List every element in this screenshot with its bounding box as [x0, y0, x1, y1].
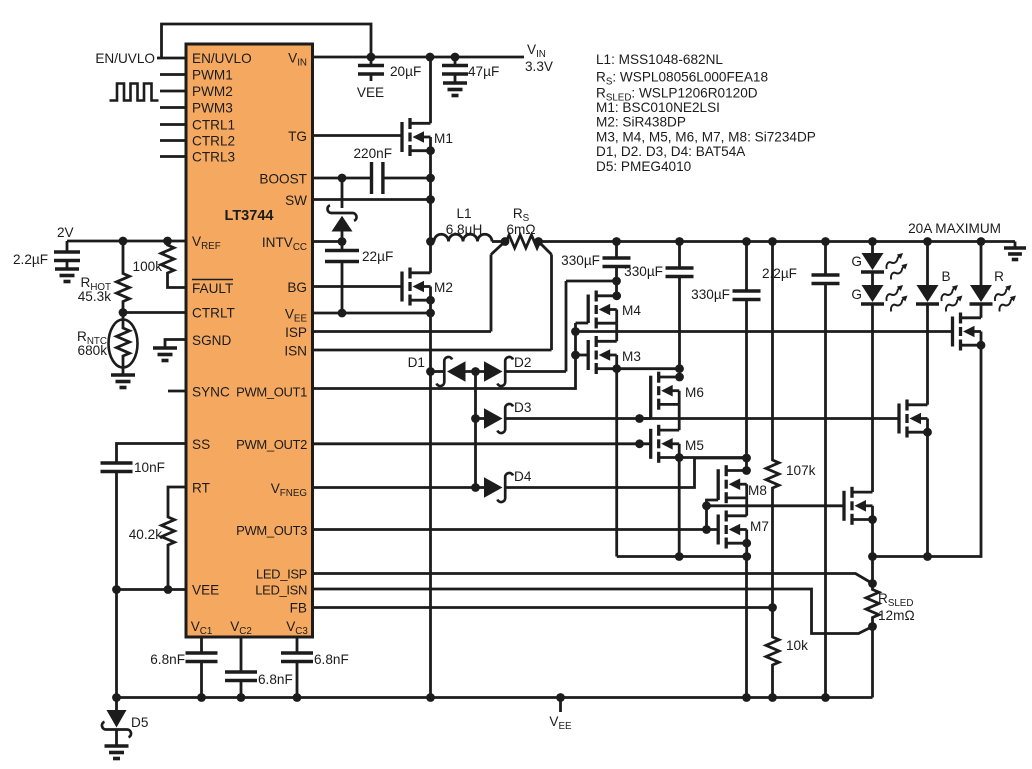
svg-text:D5: PMEG4010: D5: PMEG4010 — [596, 159, 692, 174]
wire L1 to RS — [492, 240, 505, 243]
transistor M5 N-MOSFET — [649, 429, 652, 459]
junction PWM_OUT3 / gate riser — [702, 525, 711, 534]
PWM clock waveform symbol — [110, 84, 159, 101]
svg-text:PWM_OUT3: PWM_OUT3 — [236, 523, 307, 538]
LED G1 green — [871, 242, 874, 254]
svg-text:SS: SS — [192, 437, 210, 452]
wire 10nF column down to VEE rail — [115, 590, 118, 698]
capacitor 330uF no1 — [615, 242, 618, 259]
junction SW / M1-M2 column — [426, 195, 435, 204]
junction VREF / 100k — [163, 237, 172, 246]
wire ISN sense from U1 up to RS right — [313, 349, 552, 352]
wire M4 source to M3 drain — [615, 323, 618, 341]
junction RSLED bottom — [868, 622, 877, 631]
capacitor 6.8nF at VC2 — [240, 637, 243, 672]
junction rail / VEE stub — [556, 693, 565, 702]
inductor L1 6.8uH — [431, 240, 435, 243]
wire 330uF no3 to M8 drain — [745, 458, 748, 471]
capacitor 10nF soft-start — [101, 461, 133, 465]
junction M5 source — [675, 453, 684, 462]
junction M8 drain — [742, 466, 751, 475]
wire D1-D2 anode link — [466, 370, 485, 373]
junction CTRLT / RHOT / RNTC — [119, 308, 128, 317]
svg-text:100k: 100k — [133, 259, 163, 274]
LED B blue — [926, 242, 929, 286]
resistor 107k divider top — [771, 242, 774, 460]
svg-text:45.3k: 45.3k — [78, 289, 111, 304]
diode D2 schottky — [484, 361, 503, 382]
svg-text:D1, D2. D3, D4: BAT54A: D1, D2. D3, D4: BAT54A — [596, 144, 746, 159]
capacitor 47uF VIN to GND — [454, 57, 457, 66]
wire PWM_OUT2 from U1 to M5 gate — [313, 442, 651, 445]
svg-text:CTRL1: CTRL1 — [192, 118, 235, 133]
wire VEE row left — [117, 588, 187, 591]
junction VIN / top link — [367, 53, 376, 62]
svg-text:40.2k: 40.2k — [129, 527, 162, 542]
svg-text:M1: BSC010NE2LSI: M1: BSC010NE2LSI — [596, 100, 720, 115]
svg-text:330µF: 330µF — [691, 287, 730, 302]
junction VIN / M1 drain — [426, 53, 435, 62]
svg-text:G: G — [851, 254, 862, 269]
junction gate riser / G switch gate row — [702, 501, 711, 510]
junction anode column / D4 / VFNEG — [471, 483, 480, 492]
wire VREF row — [67, 240, 186, 243]
svg-text:D3: D3 — [514, 400, 531, 415]
svg-text:M7: M7 — [750, 519, 769, 534]
resistor RS 6 milliohm sense — [505, 235, 540, 248]
wire LED_ISP from U1 to RSLED top — [313, 574, 873, 584]
junction rail / 2.2uF column — [821, 693, 830, 702]
svg-text:680k: 680k — [78, 343, 108, 358]
junction 220nF / M1 source column — [426, 174, 435, 183]
junction rail / 2.2uF — [821, 237, 830, 246]
wire RSLED bottom to VEE rail — [871, 627, 874, 698]
svg-text:12mΩ: 12mΩ — [878, 608, 915, 623]
wire SGND to ground — [165, 340, 186, 349]
svg-text:10nF: 10nF — [134, 460, 165, 475]
wire PWM_OUT3 from U1 to M7 gate — [313, 528, 719, 531]
junction M7 source — [742, 539, 751, 548]
junction rail / VC3 cap — [293, 693, 302, 702]
junction rail / 330uF no3 — [742, 237, 751, 246]
svg-text:ISN: ISN — [284, 344, 307, 359]
svg-text:M4: M4 — [622, 303, 641, 318]
svg-text:20A MAXIMUM: 20A MAXIMUM — [908, 221, 1001, 236]
svg-text:SYNC: SYNC — [192, 385, 230, 400]
junction M1 source — [426, 146, 435, 155]
junction M6 drain — [675, 373, 684, 382]
capacitor 2.2uF output — [824, 242, 827, 276]
svg-text:BG: BG — [287, 280, 307, 295]
junction rail / M2 column — [426, 693, 435, 702]
svg-text:6.8µH: 6.8µH — [446, 222, 483, 237]
junction gate chain / R switch gate row — [571, 327, 580, 336]
junction red switch source — [977, 341, 986, 350]
junction VREF / RHOT — [119, 237, 128, 246]
svg-text:6.8nF: 6.8nF — [150, 652, 185, 667]
light arrows G2 — [886, 288, 899, 302]
svg-text:ISP: ISP — [285, 325, 307, 340]
svg-text:220nF: 220nF — [353, 146, 392, 161]
capacitor 330uF no3 — [745, 242, 748, 292]
resistor 100k VREF to FAULT — [161, 241, 174, 280]
junction rail / VC1 cap — [197, 693, 206, 702]
svg-text:G: G — [851, 287, 862, 302]
capacitor 6.8nF at VC1 — [200, 637, 203, 653]
wire M3 source row to 330uF no2 bottom — [617, 367, 680, 370]
wire blue switch source down to common row — [926, 432, 929, 556]
wire BOOST from U1 — [313, 177, 372, 180]
svg-text:EN/UVLO: EN/UVLO — [95, 51, 155, 66]
junction SW column / L1 takeoff — [426, 237, 435, 246]
op-amp U1 LT3744 controller body — [186, 44, 313, 637]
LED G2 green — [862, 285, 884, 302]
junction M2 source — [426, 296, 435, 305]
diode bootstrap schottky BOOST to INTVCC — [341, 178, 344, 208]
svg-text:PWM1: PWM1 — [192, 68, 233, 83]
junction M4 drain — [612, 291, 621, 300]
wire M5 source column down to common row — [678, 458, 681, 557]
light arrows R — [995, 288, 1008, 302]
wire CTRL1 stub — [160, 123, 186, 126]
wire CTRL3 stub — [160, 155, 186, 158]
wire D4 cathode row with jog up to M5 source node — [505, 458, 746, 488]
svg-text:PWM_OUT2: PWM_OUT2 — [236, 437, 307, 452]
transistor M6 N-MOSFET — [649, 376, 652, 419]
light arrows B — [941, 288, 954, 302]
svg-text:RT: RT — [192, 481, 210, 496]
svg-text:EN/UVLO: EN/UVLO — [192, 51, 252, 66]
svg-text:D1: D1 — [408, 355, 425, 370]
junction rail / green LED string — [868, 237, 877, 246]
svg-text:D2: D2 — [514, 355, 531, 370]
wire M1 drain to VIN rail — [429, 57, 432, 123]
svg-text:3.3V: 3.3V — [525, 59, 553, 74]
wire VEE row from U1 to M2 source — [313, 312, 431, 315]
svg-text:LED_ISN: LED_ISN — [255, 583, 307, 598]
wire SYNC stub — [168, 390, 186, 393]
svg-text:47µF: 47µF — [468, 64, 499, 79]
capacitor 20uF VIN to VEE — [370, 57, 373, 66]
junction M3 source row / 330uF no2 bottom — [675, 364, 684, 373]
wire BG from U1 to M2 gate — [313, 285, 403, 288]
diode D5 schottky clamp to ground — [115, 698, 118, 711]
transistor M7 N-MOSFET — [717, 515, 720, 545]
junction VIN / 47uF — [451, 53, 460, 62]
wire SS from U1 to 10nF — [117, 444, 187, 464]
svg-text:M1: M1 — [434, 131, 453, 146]
wire to M4 drain — [615, 281, 618, 296]
svg-text:B: B — [941, 269, 950, 284]
wire LED anode top rail — [539, 240, 1016, 243]
svg-text:SGND: SGND — [192, 333, 231, 348]
junction INTVCC / diode / 22uF — [338, 237, 347, 246]
svg-text:CTRL2: CTRL2 — [192, 134, 235, 149]
svg-text:6.8nF: 6.8nF — [258, 672, 293, 687]
transistor red LED switch N-MOSFET — [951, 317, 954, 347]
thermistor RNTC 680k — [122, 313, 125, 323]
junction rail / 330uF no1 — [612, 237, 621, 246]
wire M2 drain up to SW/L1 node — [429, 242, 432, 273]
junction common row / M7 — [742, 552, 751, 561]
junction rail / red LED — [977, 237, 986, 246]
junction rail / 107k — [768, 237, 777, 246]
wire gate row to red LED switch gate — [576, 330, 953, 333]
wire LED_ISN from U1 to RSLED bottom — [313, 589, 873, 634]
capacitor 220nF BOOST — [370, 162, 373, 194]
diode D1 schottky — [447, 361, 466, 382]
wire M7 source to common row — [745, 543, 748, 556]
junction rail / 330uF no3 column — [742, 693, 751, 702]
svg-text:10k: 10k — [786, 638, 808, 653]
junction VEE / 10nF column — [112, 585, 121, 594]
resistor RHOT 45.3k — [117, 241, 130, 313]
transistor M4 N-MOSFET — [587, 295, 590, 324]
svg-text:PWM_OUT1: PWM_OUT1 — [236, 385, 307, 400]
wire PWM3 stub — [160, 106, 186, 109]
transistor M1 N-MOSFET — [400, 122, 403, 152]
wire FB from U1 to divider — [313, 606, 773, 609]
junction FB / divider — [768, 603, 777, 612]
wire ISP sense from U1 up to RS left — [313, 330, 492, 333]
junction gate chain / M3 gate — [571, 351, 580, 360]
junction D3 row / M6 gate — [635, 414, 644, 423]
transistor M2 N-MOSFET — [400, 272, 403, 302]
wire SW from U1 to M1/M2 column — [313, 198, 431, 201]
transistor green string switch N-MOSFET — [842, 491, 845, 521]
svg-text:FB: FB — [290, 601, 307, 616]
junction rail / blue LED — [923, 237, 932, 246]
svg-text:LED_ISP: LED_ISP — [256, 567, 307, 582]
capacitor 2.2uF VREF — [66, 241, 69, 252]
ground at SGND — [153, 346, 177, 350]
svg-text:330µF: 330µF — [561, 253, 600, 268]
junction VEE / 22uF bottom — [338, 309, 347, 318]
svg-text:LT3744: LT3744 — [225, 208, 274, 224]
wire gate riser to M8 gate and G switch gate row — [707, 506, 845, 530]
svg-text:107k: 107k — [786, 463, 816, 478]
wire M2 source to VEE row — [429, 300, 432, 313]
wire PWM1 stub — [160, 73, 186, 76]
wire VIN rail from U1 to VIN label — [313, 56, 525, 59]
junction rail / 10k — [768, 693, 777, 702]
junction D1 D2 anodes — [471, 367, 480, 376]
ground at 47uF — [443, 81, 467, 85]
LED R red — [980, 242, 983, 286]
wire M3 source column down to common row — [615, 369, 618, 557]
svg-text:L1: MSS1048-682NL: L1: MSS1048-682NL — [596, 52, 723, 67]
wire green switch source to RSLED top — [871, 520, 874, 586]
junction M2 column / D1 — [426, 367, 435, 376]
wire D1-D2 row from M2 column — [431, 370, 445, 373]
svg-text:D5: D5 — [131, 715, 148, 730]
wire common source row left segment — [617, 555, 750, 558]
junction VEE / M2 column — [426, 309, 435, 318]
light arrows G1 — [886, 256, 899, 270]
wire 330uF no3 column down to VEE rail — [745, 557, 748, 698]
transistor blue LED switch N-MOSFET — [897, 404, 900, 434]
wire EN/UVLO over-the-top link to VIN node — [162, 24, 372, 58]
svg-text:20µF: 20µF — [390, 64, 421, 79]
ground at RNTC — [111, 373, 135, 377]
svg-text:VEE: VEE — [192, 583, 219, 598]
svg-text:VEE: VEE — [357, 85, 384, 100]
junction PWM_OUT2 / M5 gate — [635, 439, 644, 448]
wire D3 cathode row to M6 gate and blue switch gate — [505, 417, 899, 420]
svg-text:D4: D4 — [514, 469, 532, 484]
wire RT from U1 to 40.2k — [168, 487, 186, 513]
junction blue switch source — [923, 428, 932, 437]
svg-text:M6: M6 — [685, 385, 704, 400]
svg-text:M3: M3 — [622, 349, 641, 364]
junction 330uF no1 bottom / D2 / M4 drain — [612, 277, 621, 286]
wire TG from U1 to M1 gate — [313, 134, 403, 137]
junction common row / RSLED column — [868, 552, 877, 561]
diode D4 schottky — [476, 486, 485, 489]
wire CTRL2 stub — [160, 139, 186, 142]
svg-text:BOOST: BOOST — [259, 172, 307, 187]
svg-text:M2: M2 — [434, 280, 453, 295]
svg-text:R: R — [994, 269, 1004, 284]
ground top right of LED rail — [1014, 242, 1017, 249]
junction green switch source — [868, 515, 877, 524]
wire D1-D4 anode column — [474, 372, 477, 488]
junction RS left / ISP sense — [501, 237, 510, 246]
capacitor 22uF INTVCC to VEE — [341, 242, 344, 251]
svg-text:M2: SiR438DP: M2: SiR438DP — [596, 115, 686, 130]
wire INTVCC from U1 — [313, 240, 343, 243]
wire M3 gate lead — [576, 354, 589, 357]
resistor RSLED 12 milliohm — [866, 584, 879, 627]
wire M8 source to M7 drain — [745, 498, 748, 516]
junction rail / VC2 cap — [237, 693, 246, 702]
svg-text:M3, M4, M5, M6, M7, M8: Si7234: M3, M4, M5, M6, M7, M8: Si7234DP — [596, 129, 816, 144]
svg-text:2.2µF: 2.2µF — [13, 252, 48, 267]
svg-text:6mΩ: 6mΩ — [506, 222, 535, 237]
wire 220nF to M1 source column — [383, 177, 431, 180]
junction rail / D5 — [112, 693, 121, 702]
wire EN/UVLO stub to U1 — [157, 57, 186, 60]
wire PWM_OUT1 from U1 to M3/M4 gates — [313, 323, 576, 389]
wire PWM2 stub — [160, 90, 186, 93]
wire M8 gate lead from riser — [707, 500, 719, 506]
svg-text:CTRLT: CTRLT — [192, 306, 235, 321]
svg-text:2V: 2V — [57, 225, 74, 240]
wire M6 source to M5 drain — [678, 404, 681, 430]
svg-text:TG: TG — [288, 129, 307, 144]
svg-text:FAULT: FAULT — [192, 281, 233, 296]
svg-text:6.8nF: 6.8nF — [314, 652, 349, 667]
wire M1 source down to BOOST cap / SW node — [429, 151, 432, 242]
svg-text:M8: M8 — [748, 483, 767, 498]
svg-text:SW: SW — [285, 193, 307, 208]
wire CTRLT row — [123, 311, 186, 314]
junction RS right / ISN sense — [534, 237, 543, 246]
svg-text:L1: L1 — [456, 206, 471, 221]
wire M2 column down to bottom VEE rail — [429, 313, 432, 698]
svg-text:PWM3: PWM3 — [192, 101, 233, 116]
wire VFNEG from U1 to D4 — [313, 486, 476, 489]
transistor M8 N-MOSFET — [717, 469, 720, 500]
resistor 40.2k RT — [162, 513, 175, 590]
junction anode column / D3 — [471, 414, 480, 423]
ground at 2.2uF — [55, 267, 79, 271]
junction M5 source row / 330uF no3 — [742, 454, 751, 463]
svg-text:330µF: 330µF — [624, 264, 663, 279]
diode D3 schottky — [476, 417, 485, 420]
wire M5 source row to 330uF no3 bottom — [679, 456, 746, 459]
svg-text:2.2µF: 2.2µF — [762, 266, 797, 281]
svg-text:M5: M5 — [685, 438, 704, 453]
wire bottom VEE rail — [117, 696, 873, 699]
junction RSLED top — [868, 579, 877, 588]
wire D2 cathode to 330uF no1 bottom node — [505, 370, 566, 373]
capacitor 330uF no2 — [678, 242, 681, 269]
junction VEE / 40.2k — [164, 585, 173, 594]
net stub VEE bottom — [559, 698, 562, 713]
wire red switch source down to common row — [873, 345, 982, 556]
resistor 10k divider bottom — [766, 608, 779, 698]
wire M6 gate lead — [640, 417, 651, 420]
wire M4 gate lead — [576, 322, 589, 325]
junction common row / blue switch — [923, 552, 932, 561]
junction rail / 330uF no2 — [675, 237, 684, 246]
svg-text:CTRL3: CTRL3 — [192, 150, 235, 165]
transistor M3 N-MOSFET — [587, 340, 590, 370]
ground at D5 — [105, 744, 129, 748]
junction M3 source — [612, 364, 621, 373]
svg-text:PWM2: PWM2 — [192, 84, 233, 99]
junction BOOST / bootstrap diode — [338, 174, 347, 183]
capacitor 6.8nF at VC3 — [296, 637, 299, 653]
svg-text:22µF: 22µF — [362, 249, 393, 264]
junction common row / M5 column — [675, 552, 684, 561]
